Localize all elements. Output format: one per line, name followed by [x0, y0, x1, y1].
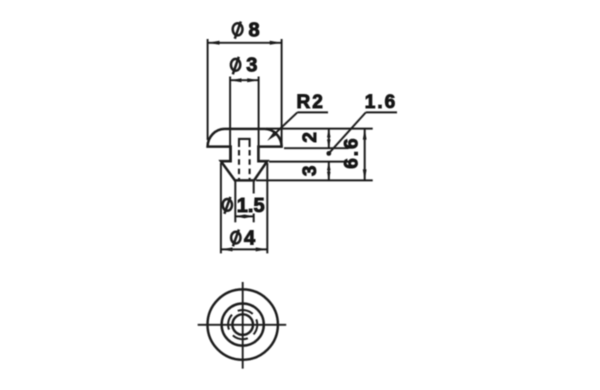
- label 1.6 with leader and dot: [326, 92, 397, 156]
- dim phi1.5 extension line right (broken by text): [253, 181, 255, 194]
- dim phi1.5 extension line left: [234, 181, 236, 222]
- label phi4: [231, 228, 256, 250]
- hidden hole line left (dashed): [238, 150, 240, 180]
- dim phi1.5 dimension line with arrows: [235, 215, 253, 217]
- dim phi4 extension line right: [266, 163, 268, 253]
- bottom view centerline vertical: [242, 282, 244, 369]
- label phi3: [231, 54, 257, 76]
- grommet cross-section outline: [208, 129, 282, 181]
- label phi8: [233, 19, 260, 41]
- label R2 with leader: [267, 92, 328, 141]
- bottom view middle circle: [222, 304, 264, 346]
- svg-text:2: 2: [300, 132, 321, 143]
- dim phi8 extension line right: [281, 39, 283, 146]
- hole recess (solid top): [239, 139, 250, 147]
- extension line cap-bottom (right side): [284, 147, 349, 149]
- bottom view centerline horizontal: [198, 324, 287, 326]
- svg-text:R2: R2: [297, 92, 325, 113]
- svg-text:4: 4: [244, 228, 256, 250]
- svg-text:3: 3: [300, 166, 321, 177]
- label phi1.5: [223, 195, 265, 217]
- dim phi3 dimension line: [230, 79, 259, 81]
- svg-text:3: 3: [246, 54, 257, 76]
- svg-text:1.6: 1.6: [365, 92, 397, 113]
- svg-text:1.5: 1.5: [237, 195, 265, 217]
- dim phi4 extension line left: [220, 163, 222, 253]
- hidden hole line right (dashed): [249, 150, 251, 180]
- extension line part-bottom (right side): [256, 179, 373, 181]
- dim phi8 extension line left: [207, 39, 209, 140]
- dim 2 vertical dimension line: [328, 129, 330, 149]
- dim phi4 dimension line: [221, 248, 267, 250]
- extension line cap-top (right side): [266, 128, 373, 130]
- svg-text:6.6: 6.6: [342, 136, 363, 168]
- dim phi8 dimension line: [208, 42, 282, 44]
- dim 3 vertical dimension line: [328, 162, 330, 181]
- dim phi3 extension line left: [229, 77, 231, 162]
- bottom view outer circle: [208, 289, 278, 359]
- extension line barb-top (right side): [269, 161, 349, 163]
- bottom view hidden circle (dashed): [224, 306, 262, 344]
- svg-text:8: 8: [248, 19, 259, 41]
- bottom view inner circle: [232, 314, 253, 335]
- dim phi3 extension line right: [258, 77, 260, 162]
- dim 6.6 vertical dimension line: [364, 129, 366, 181]
